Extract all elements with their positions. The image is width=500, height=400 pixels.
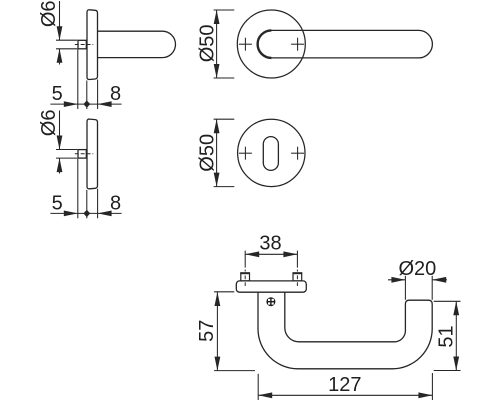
screw head left [241, 273, 250, 281]
svg-text:Ø50: Ø50 [197, 134, 219, 172]
svg-text:57: 57 [196, 320, 218, 342]
keyhole oval [263, 137, 278, 171]
svg-text:51: 51 [436, 325, 458, 347]
svg-text:Ø6: Ø6 [38, 110, 60, 137]
escutcheon top view circle [238, 119, 305, 186]
svg-text:5: 5 [52, 193, 63, 215]
svg-text:5: 5 [52, 83, 63, 105]
lever neck side view [98, 31, 176, 57]
screw centerline left [244, 270, 246, 286]
dimension 127 [258, 373, 432, 400]
phillips screw symbol [266, 297, 275, 306]
lever handle top view capsule [258, 30, 433, 58]
screw centerline right [296, 270, 298, 286]
svg-text:38: 38 [259, 233, 281, 255]
screw center mark right (escutcheon) [291, 147, 304, 160]
svg-text:8: 8 [110, 83, 121, 105]
screw center mark left (escutcheon) [239, 147, 252, 160]
dimension 5 / 8 (escutcheon) [50, 159, 121, 219]
spindle square (lever rose) [78, 40, 86, 49]
dimension Ø6 (lever rose) [56, 1, 77, 65]
screw center mark right (lever rose) [291, 38, 304, 51]
lever neck bold arc (top view) [258, 30, 272, 58]
screw head right [293, 273, 302, 281]
svg-text:Ø6: Ø6 [38, 0, 60, 27]
screw center mark left (lever rose) [239, 38, 252, 51]
lever handle front view outline [258, 292, 432, 369]
dimension 38 [245, 251, 297, 268]
rose side view (lever) body [87, 10, 98, 80]
dimension 57 [214, 292, 255, 371]
spindle square (escutcheon) [78, 150, 86, 159]
dimension 5 / 8 (lever rose) [50, 50, 121, 110]
dimension Ø6 (escutcheon) [56, 111, 77, 174]
svg-text:127: 127 [328, 374, 361, 396]
dimension Ø50 (lever rose) [214, 10, 235, 78]
svg-text:Ø20: Ø20 [398, 258, 436, 280]
centerline through square (escutcheon) [75, 153, 94, 155]
dimension Ø20 [388, 276, 447, 300]
centerline through spindle square [75, 44, 94, 46]
rose top view circle (lever) [237, 10, 305, 78]
front view rose plate [236, 281, 306, 292]
rose side view (escutcheon) body [87, 119, 98, 189]
svg-text:8: 8 [110, 193, 121, 215]
dimension 51 [434, 301, 461, 370]
svg-text:Ø50: Ø50 [197, 24, 219, 62]
dimension Ø50 (escutcheon) [214, 119, 235, 186]
